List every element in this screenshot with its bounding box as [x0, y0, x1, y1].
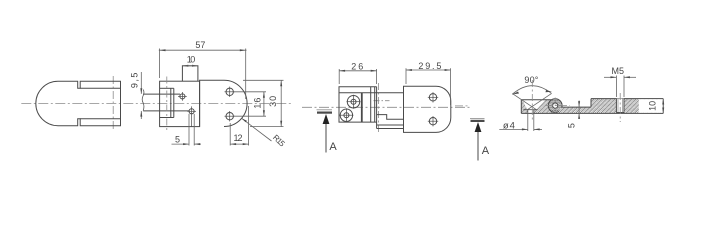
view3 right leaf outline: [404, 86, 451, 132]
section arrow A right: [455, 106, 485, 161]
svg-text:10: 10: [648, 101, 658, 111]
dimension 29.5: [406, 68, 451, 105]
dimension 26: [339, 69, 376, 84]
svg-text:5: 5: [175, 134, 180, 144]
section countersink centerline: [531, 80, 533, 122]
svg-text:10: 10: [187, 55, 196, 65]
view3 knuckle edge line: [339, 92, 404, 94]
view2 left leaf inner lines: [160, 88, 174, 117]
svg-text:9,5: 9,5: [130, 73, 140, 89]
svg-text:29.5: 29.5: [418, 61, 441, 71]
view3 counterbore hole 2: [339, 108, 353, 122]
view3 left block outline: [339, 87, 377, 129]
view2 right leaf outline: [200, 80, 247, 126]
view2 countersink centerline: [166, 77, 168, 131]
svg-text:16: 16: [252, 98, 262, 109]
section M5 hole: [616, 99, 624, 113]
svg-text:5: 5: [566, 123, 576, 128]
wire: [21, 40, 664, 161]
svg-text:30: 30: [268, 96, 278, 107]
svg-text:ø4: ø4: [503, 120, 515, 131]
section arrow A left: [317, 110, 333, 153]
svg-text:90°: 90°: [524, 75, 538, 85]
dimension M5: [604, 76, 636, 98]
view2 right leaf hole upper: [225, 87, 235, 97]
section view hatched left plate: [521, 100, 553, 114]
view3 bold edge: [361, 93, 363, 122]
view1 horizontal centerline: [21, 102, 291, 104]
svg-text:26: 26: [351, 62, 363, 72]
view2 right leaf hole lower: [225, 111, 235, 121]
dimension o4: [499, 114, 542, 131]
dimension 10 arrows: [662, 99, 664, 114]
view2 screw hole 2: [187, 106, 196, 126]
svg-text:A: A: [482, 145, 490, 157]
view3 counterbore hole 1: [347, 95, 361, 109]
view3 pin horizontal centerline: [374, 100, 390, 102]
view3 right hole upper: [428, 92, 438, 102]
view3 horizontal centerline: [302, 106, 472, 108]
section pin boss: [548, 99, 562, 113]
view2 screw hole 1: [178, 92, 187, 101]
view3 pin axis centerline: [378, 83, 380, 133]
dimension 5 (bottom left): [172, 114, 202, 146]
dimension 12 (bottom): [230, 106, 248, 146]
view2 shaft break line: [142, 90, 144, 111]
view1 outline: [36, 81, 121, 125]
dimension 9,5: [140, 72, 142, 119]
svg-text:12: 12: [234, 133, 243, 143]
view2 left leaf outline: [160, 81, 200, 126]
svg-text:A: A: [329, 141, 337, 153]
section boss centerline horizontal: [546, 105, 570, 107]
radius leader R15: [242, 118, 272, 141]
dimension 16: [234, 92, 266, 116]
view1 vertical centerline: [112, 76, 114, 131]
view3 step lines: [377, 115, 404, 129]
dimension 5 (section): [578, 101, 580, 119]
dimension 90 degrees: [512, 86, 552, 110]
section thin bar: [521, 99, 663, 114]
section 10 text box: [639, 99, 663, 113]
dimension 10 (tower): [182, 65, 198, 67]
view2 shaft: [143, 94, 189, 111]
section M5 centerline: [619, 93, 621, 122]
view3 slit lines: [371, 87, 375, 122]
view2 knuckle tower: [182, 66, 198, 81]
dimension 30: [243, 80, 284, 126]
svg-text:57: 57: [195, 40, 205, 50]
svg-text:M5: M5: [612, 66, 625, 76]
section countersink cone: [523, 110, 537, 114]
view1 slot inner lines: [80, 88, 120, 118]
section boss centerline vertical: [554, 98, 556, 114]
dimension 57: [159, 49, 247, 100]
view3 right hole lower: [428, 116, 438, 126]
